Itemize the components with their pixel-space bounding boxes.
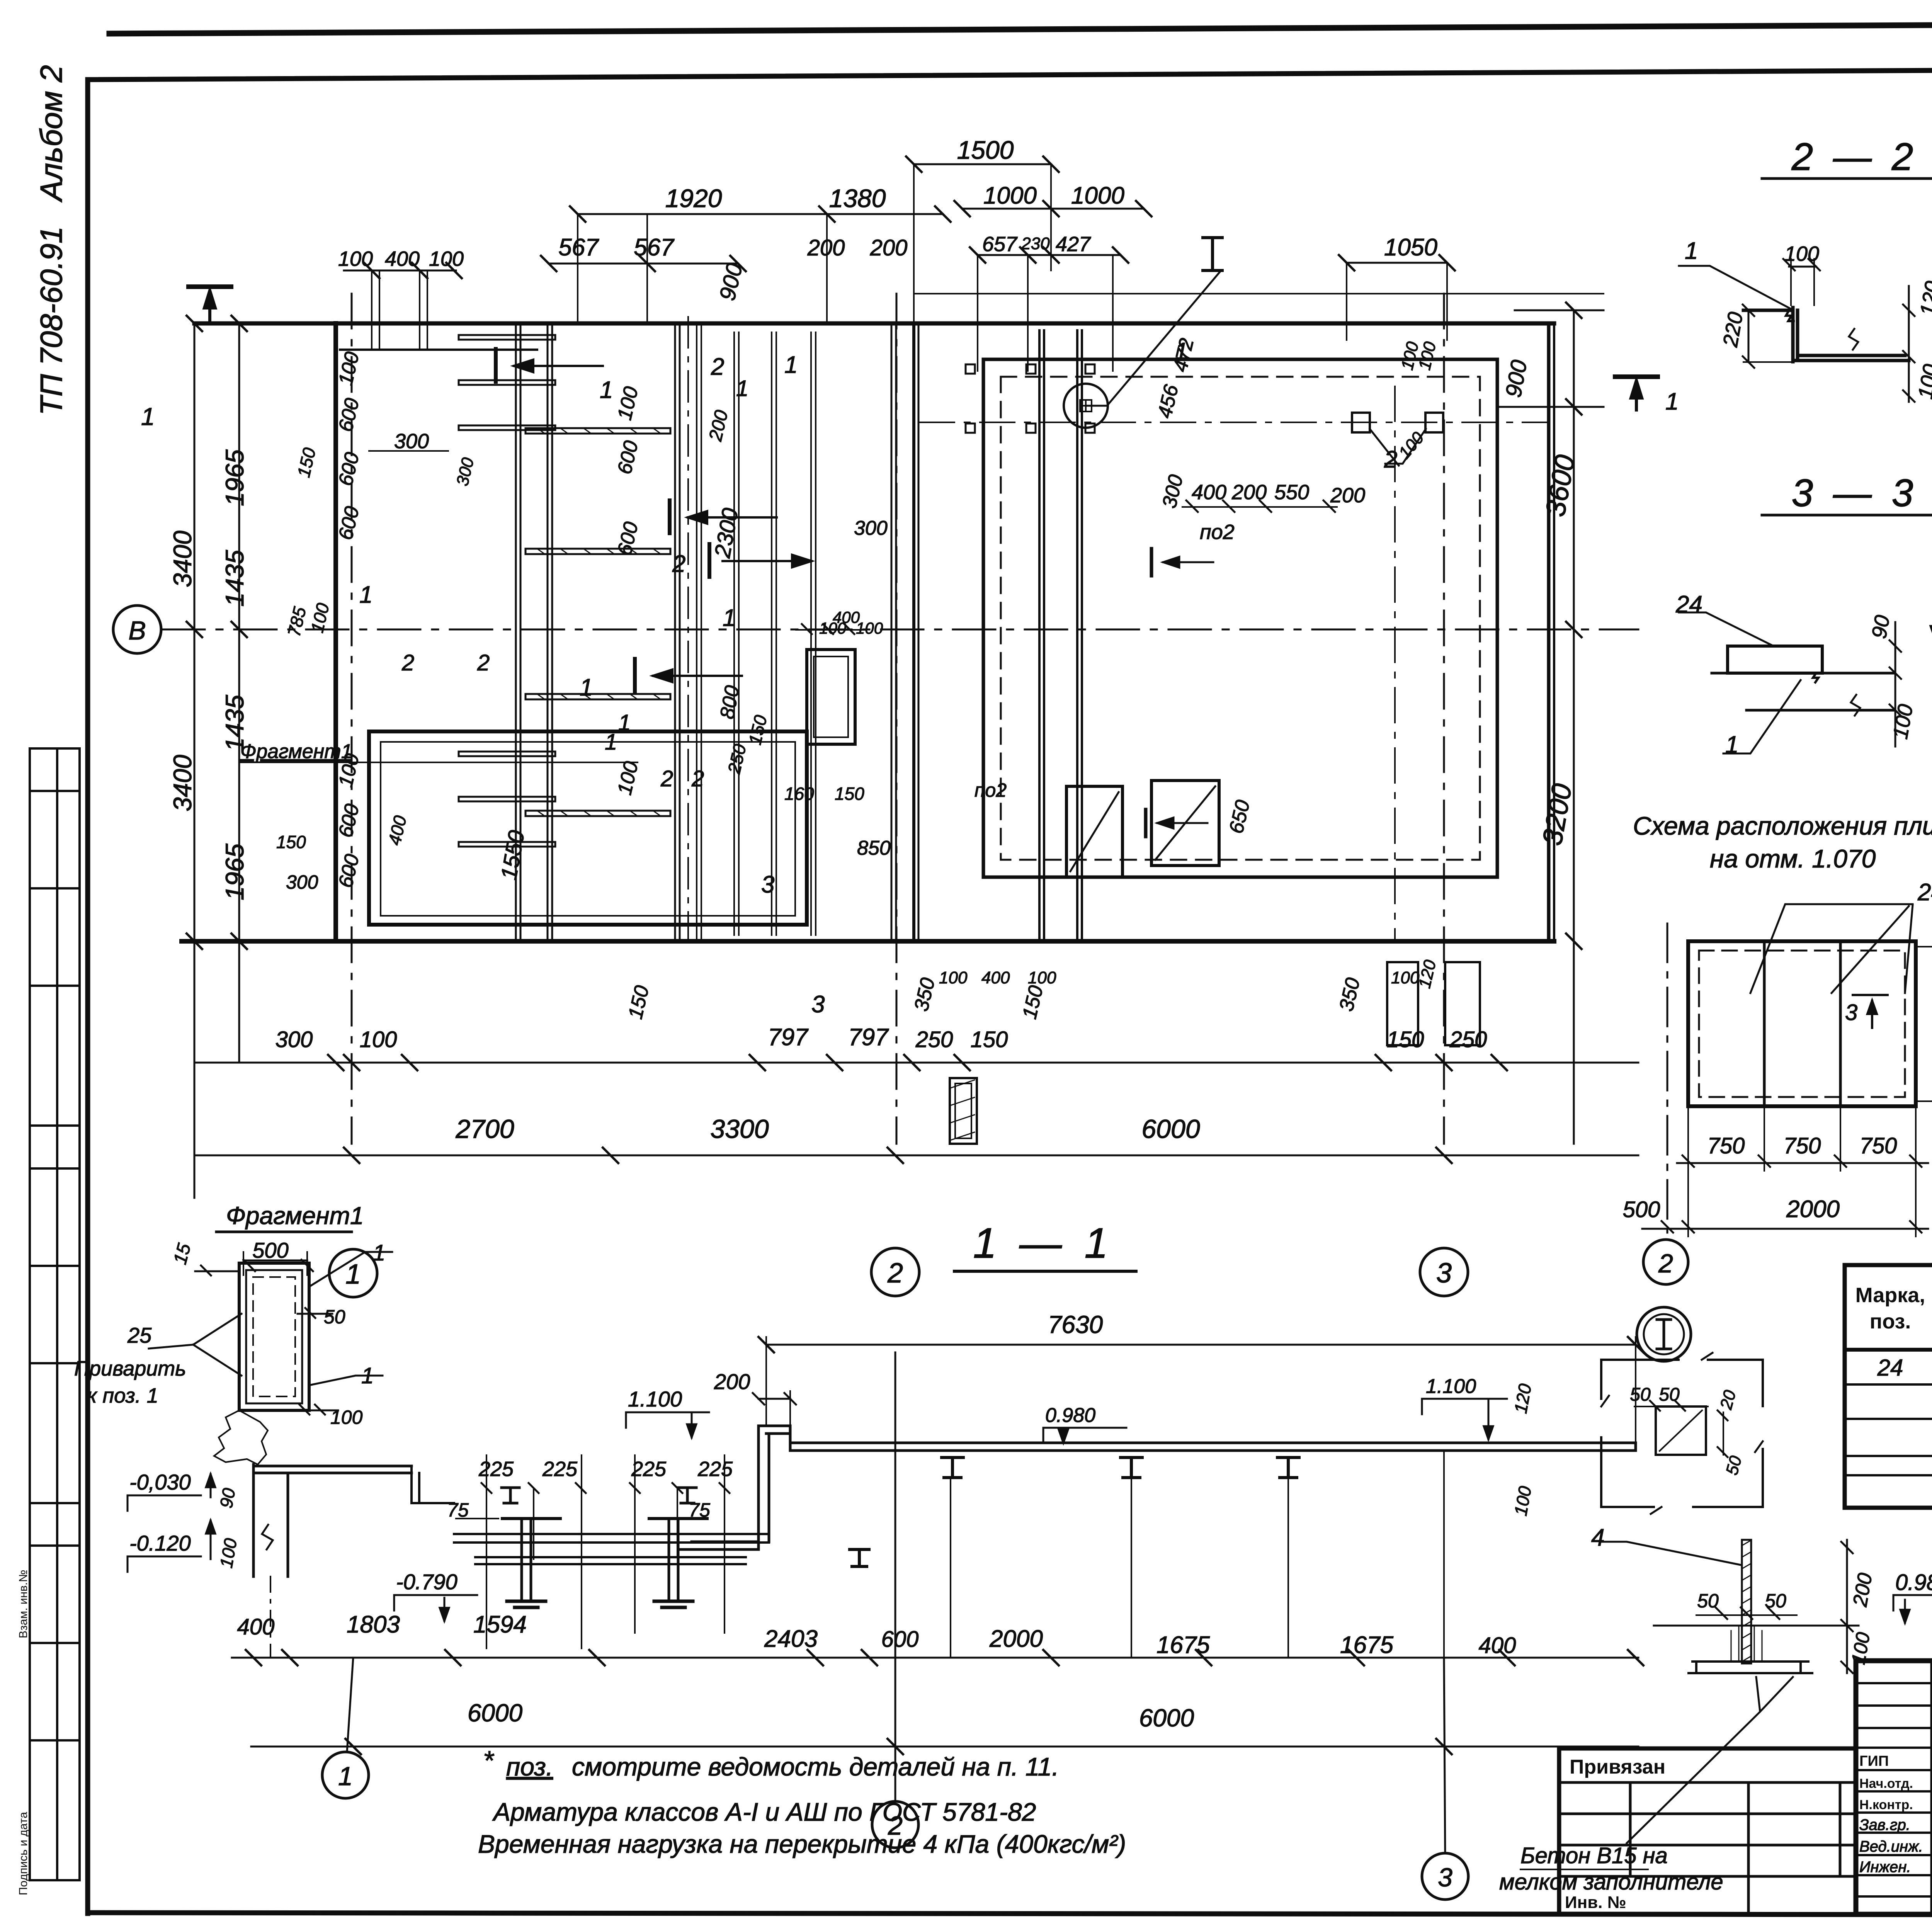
step wall right	[678, 1426, 769, 1549]
3-3 plate corner mark	[1813, 673, 1818, 682]
top extension line right part	[914, 293, 1604, 294]
title block (stamp) frame	[1559, 1661, 1932, 1914]
left dim ticks	[187, 316, 247, 949]
fragment portal inner	[246, 1270, 302, 1403]
3-3 plate	[1728, 646, 1822, 673]
3-3 dim 100	[1889, 673, 1901, 747]
svg-text:797: 797	[768, 1024, 809, 1051]
svg-text:Схема расположения плит: Схема расположения плит	[1633, 811, 1932, 840]
1-1 title underline	[954, 1270, 1136, 1273]
svg-text:0.980: 0.980	[1895, 1570, 1932, 1595]
svg-text:100: 100	[856, 619, 883, 637]
svg-text:Взам. инв.№: Взам. инв.№	[17, 1570, 30, 1638]
column top plates	[502, 1517, 707, 1520]
svg-text:150: 150	[971, 1027, 1008, 1052]
section 1-1 circle 1	[322, 1752, 369, 1798]
svg-text:1: 1	[605, 730, 617, 755]
svg-text:-0.120: -0.120	[129, 1531, 191, 1555]
section 1-1 circle 3	[1422, 1853, 1468, 1900]
plate scheme outer rect	[1688, 941, 1916, 1106]
svg-text:500: 500	[252, 1238, 288, 1262]
svg-text:90: 90	[1867, 613, 1895, 640]
right 900 dim	[1515, 310, 1604, 311]
svg-text:50: 50	[1659, 1384, 1680, 1405]
svg-text:3 — 3: 3 — 3	[1792, 471, 1918, 515]
fragment 100 dim	[296, 1405, 338, 1415]
fragment dim 500	[241, 1267, 309, 1268]
svg-text:50: 50	[1765, 1590, 1786, 1612]
svg-text:150: 150	[835, 784, 864, 804]
detail dim 20/50 right	[1723, 1412, 1724, 1455]
top dim 1050	[1347, 262, 1447, 264]
bolt base hatch	[1731, 1627, 1762, 1662]
svg-text:6000: 6000	[1141, 1114, 1200, 1144]
bolt level line	[1654, 1625, 1859, 1627]
upper-left embed bars	[459, 335, 555, 847]
svg-text:2: 2	[887, 1258, 903, 1289]
top dim 657/230/427	[978, 254, 1121, 256]
svg-text:50: 50	[324, 1306, 345, 1328]
right room inner wall	[983, 359, 1497, 877]
svg-text:200: 200	[714, 1369, 750, 1394]
svg-text:поз.: поз.	[506, 1752, 553, 1781]
section 1-1 and fragment labels	[74, 1202, 1535, 1892]
fragment leader 25	[149, 1314, 241, 1376]
plan view dimension labels	[128, 136, 1581, 1290]
axis 3 line	[1443, 294, 1445, 1144]
corridor centerline dashdot	[687, 317, 689, 941]
svg-text:6000: 6000	[1139, 1704, 1194, 1732]
detail square with break borders	[1601, 1360, 1763, 1507]
I symbol mid-span	[850, 1549, 869, 1566]
dims 225 left pit	[478, 1480, 580, 1480]
scheme dim 500/2000	[1642, 1228, 1928, 1230]
svg-text:Вед.инж.: Вед.инж.	[1859, 1838, 1923, 1855]
svg-text:Подпись и дата: Подпись и дата	[17, 1812, 30, 1895]
svg-text:2: 2	[477, 650, 490, 675]
svg-text:Н.контр.: Н.контр.	[1859, 1798, 1913, 1812]
svg-text:1.100: 1.100	[628, 1387, 682, 1411]
right wing small squares	[1352, 413, 1370, 432]
fragment dim 15	[195, 1265, 238, 1276]
right wing left wall pair	[912, 323, 915, 941]
svg-text:1000: 1000	[1071, 182, 1124, 209]
bolt elevation 0.980	[1893, 1595, 1932, 1623]
svg-text:Фрагмент1: Фрагмент1	[240, 740, 352, 763]
2-2 dim 220	[1748, 310, 1750, 362]
elevation 1.100 left	[626, 1412, 709, 1437]
svg-text:по2: по2	[1200, 520, 1235, 544]
svg-text:1675: 1675	[1340, 1632, 1393, 1658]
section 1-1 and fragment line work	[128, 1232, 1643, 1900]
svg-text:2: 2	[711, 354, 724, 380]
svg-text:Альбом 2: Альбом 2	[34, 65, 68, 202]
middle-right plate spec table frame	[1845, 1265, 1932, 1508]
2-2 dim 100 top	[1789, 266, 1816, 268]
axis circle 3	[1420, 1248, 1468, 1296]
circle inner mark	[1080, 400, 1092, 412]
svg-text:1965: 1965	[220, 449, 249, 506]
embed plate bottom middle	[950, 1078, 977, 1144]
plan top edge wall	[194, 321, 1554, 326]
svg-text:на отм. 1.070: на отм. 1.070	[1710, 844, 1876, 873]
dim 7630 line	[766, 1344, 1636, 1346]
svg-text:2: 2	[401, 650, 414, 675]
svg-text:225: 225	[631, 1458, 667, 1481]
svg-text:Инжен.: Инжен.	[1859, 1859, 1911, 1876]
small embed squares row2	[966, 423, 1095, 433]
dim line 400-200-550	[1182, 506, 1337, 508]
svg-text:3: 3	[1845, 1000, 1857, 1025]
svg-text:50: 50	[1630, 1384, 1651, 1405]
svg-text:0.980: 0.980	[1045, 1404, 1095, 1427]
elevation -0.790	[394, 1595, 477, 1621]
small embed squares row1	[966, 364, 1095, 374]
svg-text:300: 300	[394, 430, 429, 453]
svg-text:3: 3	[1438, 1863, 1452, 1892]
axis2 wall pair	[891, 323, 893, 941]
section mark T1 right	[1615, 374, 1658, 379]
svg-text:100: 100	[1028, 968, 1056, 987]
fragment portal outer	[239, 1263, 309, 1410]
svg-text:400: 400	[385, 247, 420, 270]
svg-text:750: 750	[1784, 1133, 1821, 1158]
svg-text:1: 1	[1725, 731, 1738, 758]
svg-text:1: 1	[359, 582, 372, 608]
fragment 50 mark	[298, 1308, 332, 1318]
vertical ext lines for 225 dims	[486, 1455, 724, 1648]
svg-text:*: *	[483, 1745, 495, 1776]
svg-text:657: 657	[982, 233, 1018, 256]
plan left wall	[333, 323, 338, 941]
svg-text:200: 200	[870, 235, 908, 260]
scheme bottom dim 750s	[1677, 1162, 1928, 1164]
scheme section arrows 3	[1853, 995, 1888, 1028]
top dim 1000/1000	[962, 208, 1144, 210]
dim 75 marks	[456, 1518, 699, 1519]
svg-text:75: 75	[689, 1499, 710, 1521]
svg-text:3: 3	[811, 991, 825, 1018]
svg-text:3: 3	[761, 871, 774, 898]
svg-text:1: 1	[736, 376, 748, 401]
section 2-2 title underline	[1762, 177, 1932, 180]
right room horiz axis dashdot	[920, 422, 1549, 423]
svg-text:6000: 6000	[468, 1699, 523, 1727]
section mark 1 lower	[633, 659, 637, 692]
sections labels	[1499, 135, 1932, 1895]
svg-text:2000: 2000	[989, 1626, 1043, 1652]
embed plate bottom right	[1387, 962, 1418, 1045]
left small dims 90/100	[234, 1466, 245, 1566]
axis B line	[162, 629, 1638, 631]
svg-text:Марка,: Марка,	[1855, 1284, 1925, 1307]
MH117 dims 100 400 100	[796, 629, 866, 631]
3-3 label 1 leader	[1723, 680, 1801, 753]
2-2 right dim line 120/100	[1908, 286, 1910, 402]
3-3 elevation 1.070	[1930, 556, 1932, 641]
hatched opening 2	[1151, 781, 1219, 866]
detail dims 50 50	[1634, 1406, 1708, 1407]
column 2 foot	[654, 1601, 693, 1607]
svg-text:Нач.отд.: Нач.отд.	[1859, 1776, 1913, 1791]
svg-text:230: 230	[1021, 234, 1050, 253]
corridor wall pair 1	[515, 323, 517, 941]
svg-text:797: 797	[848, 1024, 889, 1051]
svg-text:427: 427	[1056, 233, 1091, 256]
svg-text:1500: 1500	[957, 136, 1014, 164]
svg-text:300: 300	[854, 517, 888, 539]
svg-text:75: 75	[447, 1499, 469, 1521]
column 2	[669, 1519, 678, 1601]
page top scan line	[109, 21, 1932, 34]
svg-text:200: 200	[1231, 481, 1267, 504]
svg-text:1: 1	[618, 710, 631, 735]
left dim column lines	[194, 323, 196, 1198]
fragment title underline	[216, 1231, 352, 1233]
scheme double circle 1	[1637, 1307, 1691, 1361]
svg-text:1965: 1965	[220, 844, 249, 900]
svg-text:4: 4	[1591, 1524, 1604, 1551]
svg-text:550: 550	[1274, 481, 1309, 504]
dim 6000 line	[251, 1746, 1638, 1748]
section mark 2 upper	[494, 349, 498, 382]
left margin stamp strip	[30, 748, 80, 1880]
top dim line row3 (100/400/100)	[344, 270, 456, 272]
svg-text:1: 1	[1665, 388, 1679, 415]
svg-text:24: 24	[1675, 591, 1702, 618]
svg-text:Приварить: Приварить	[74, 1357, 186, 1380]
svg-text:50: 50	[1697, 1590, 1719, 1612]
wall break mark	[262, 1525, 273, 1549]
svg-text:1380: 1380	[829, 184, 886, 213]
elevation -0.030	[128, 1474, 215, 1511]
svg-text:100: 100	[330, 1406, 363, 1428]
svg-text:200: 200	[1330, 484, 1365, 507]
scheme circle 2	[1643, 1240, 1688, 1284]
svg-text:567: 567	[558, 234, 599, 261]
hatched opening 1	[1066, 786, 1122, 877]
fragment torn edge	[214, 1410, 268, 1464]
svg-text:225: 225	[478, 1458, 514, 1481]
svg-text:400: 400	[237, 1614, 275, 1639]
svg-text:мелком заполнителе: мелком заполнителе	[1499, 1869, 1723, 1895]
axis circle 2	[871, 1248, 919, 1296]
right room vert axis dashdot	[1394, 386, 1396, 941]
svg-text:225: 225	[542, 1458, 578, 1481]
2-2 step corner detail	[1786, 310, 1794, 321]
elevation 0.980 mid	[1043, 1428, 1126, 1443]
3-3 slab break	[1851, 695, 1860, 716]
svg-text:2 — 2: 2 — 2	[1791, 135, 1918, 179]
column 1 foot	[507, 1601, 546, 1607]
svg-text:смотрите ведомость детале: смотрите ведомость деталей на п. 11.	[572, 1752, 1059, 1781]
bolt dim 50 50	[1696, 1614, 1797, 1616]
3-3 slab below	[1712, 673, 1893, 710]
crosshatch circle	[1064, 384, 1108, 428]
big opening left room	[369, 731, 807, 925]
svg-text:300: 300	[276, 1027, 313, 1052]
left wall axis	[270, 1577, 271, 1658]
bolt right dim 200/100	[1846, 1540, 1848, 1673]
corridor wall pair 2	[674, 323, 676, 941]
svg-text:150: 150	[1387, 1027, 1424, 1052]
plate scheme inner dashed	[1699, 951, 1905, 1097]
svg-text:2: 2	[660, 766, 673, 791]
svg-text:300: 300	[286, 871, 318, 893]
svg-text:2000: 2000	[1786, 1196, 1840, 1223]
svg-text:850: 850	[857, 837, 891, 859]
svg-text:1000: 1000	[983, 182, 1037, 209]
right 120/100 dim	[1541, 1372, 1542, 1526]
svg-text:400: 400	[981, 968, 1010, 987]
svg-text:2403: 2403	[764, 1626, 818, 1652]
bottom main dim line	[194, 1155, 1638, 1156]
axis B circle	[113, 605, 161, 653]
left foundation wall	[253, 1464, 288, 1577]
fragment leaders 1	[309, 1252, 392, 1385]
plate dividers	[1763, 941, 1766, 1106]
svg-text:2: 2	[1658, 1249, 1673, 1278]
signature rows	[1856, 1682, 1932, 1684]
svg-text:поз.: поз.	[1870, 1310, 1911, 1333]
svg-text:2: 2	[672, 551, 685, 577]
plan right wall	[1547, 323, 1551, 941]
middle embed bars set B	[526, 428, 670, 816]
svg-text:1: 1	[784, 352, 798, 378]
section mark 2 mid2	[707, 544, 711, 577]
I-beam symbols under slab	[942, 1458, 963, 1478]
svg-text:1: 1	[141, 403, 155, 430]
svg-text:Фрагмент1: Фрагмент1	[226, 1202, 364, 1230]
plan bottom edge wall	[182, 939, 1554, 944]
svg-text:ТП 708-60.91: ТП 708-60.91	[34, 226, 68, 415]
svg-text:по2: по2	[975, 779, 1007, 801]
sunken slab	[454, 1534, 769, 1564]
embed detail MH117 rect	[807, 650, 855, 744]
svg-text:Зав.гр.: Зав.гр.	[1859, 1816, 1910, 1833]
svg-text:1435: 1435	[220, 550, 249, 607]
elevation -0.120	[128, 1520, 215, 1572]
svg-text:2: 2	[691, 766, 704, 791]
section mark po2 small	[1150, 549, 1153, 576]
scheme axis line	[1667, 923, 1668, 1233]
svg-text:100: 100	[338, 247, 373, 270]
svg-text:1: 1	[338, 1762, 353, 1791]
svg-text:1675: 1675	[1156, 1632, 1210, 1658]
axis 2 line	[896, 294, 898, 1144]
svg-text:25: 25	[127, 1323, 152, 1347]
svg-text:1.100: 1.100	[1426, 1375, 1476, 1398]
ext lines to dim	[951, 1451, 1444, 1658]
svg-text:225: 225	[697, 1458, 733, 1481]
svg-text:7630: 7630	[1048, 1311, 1103, 1338]
section I flag	[1203, 238, 1222, 270]
svg-text:1: 1	[580, 674, 593, 701]
svg-text:3300: 3300	[710, 1114, 769, 1144]
svg-text:В: В	[128, 616, 146, 645]
left slab	[253, 1466, 412, 1473]
signature columns	[1930, 1661, 1932, 1914]
svg-text:100: 100	[1784, 242, 1819, 265]
beton leader	[1627, 1677, 1793, 1843]
right dim line 3600/3200	[1573, 310, 1575, 1144]
bolt base plate	[1689, 1662, 1812, 1673]
svg-text:1803: 1803	[347, 1611, 400, 1638]
sections 2-2 3-3 and plate scheme line work	[1600, 179, 1932, 1843]
svg-text:250: 250	[1449, 1027, 1487, 1052]
upper ledge at 1.100	[759, 1426, 790, 1434]
svg-text:150: 150	[276, 832, 306, 852]
section mark po2 lower small	[1144, 810, 1148, 837]
svg-text:400: 400	[1192, 481, 1226, 504]
fragment portal dashed	[253, 1277, 295, 1396]
svg-text:400: 400	[1479, 1633, 1516, 1658]
svg-text:1: 1	[361, 1363, 374, 1388]
leader 24 to plates	[1750, 904, 1913, 993]
svg-text:ГИП: ГИП	[1859, 1753, 1889, 1769]
svg-text:1594: 1594	[473, 1611, 527, 1638]
fragment callout line	[240, 762, 638, 763]
section 3-3 title underline	[1762, 514, 1932, 517]
title block outer border	[1856, 1661, 1932, 1914]
svg-text:1: 1	[1685, 238, 1698, 264]
svg-text:250: 250	[915, 1027, 953, 1052]
bolt hatched shaft	[1742, 1540, 1751, 1663]
svg-text:3400: 3400	[168, 755, 197, 811]
axis circle 1	[329, 1249, 377, 1297]
title block texts	[1565, 1676, 1932, 1932]
elevation 1.100 right	[1422, 1399, 1507, 1439]
2-2 break mark	[1849, 329, 1858, 350]
bottom dim line row	[232, 1657, 1638, 1659]
svg-text:1: 1	[1175, 338, 1188, 365]
svg-text:100: 100	[360, 1027, 397, 1052]
svg-text:1: 1	[373, 1240, 385, 1265]
I symbols small left	[502, 1488, 519, 1503]
svg-text:750: 750	[1708, 1133, 1745, 1158]
svg-text:Инв. №: Инв. №	[1565, 1893, 1626, 1912]
scheme top leaders 24	[1739, 905, 1913, 978]
svg-text:750: 750	[1860, 1133, 1897, 1158]
axis 1 line	[351, 294, 353, 1144]
section 2-2 profile	[1743, 308, 1909, 362]
top dim line row1 (1920/1380)	[578, 213, 943, 215]
column 1	[522, 1519, 531, 1601]
svg-text:-0,030: -0,030	[129, 1470, 191, 1494]
jamb lines	[733, 332, 735, 935]
svg-text:1: 1	[723, 605, 736, 631]
svg-text:24: 24	[1917, 879, 1932, 906]
svg-text:200: 200	[807, 235, 845, 260]
svg-text:Временная нагрузка на перек: Временная нагрузка на перекрытие 4 кПа (…	[478, 1830, 1126, 1858]
bottom small dim line	[194, 1062, 1638, 1064]
svg-text:160: 160	[784, 784, 814, 804]
svg-text:Привязан: Привязан	[1570, 1756, 1665, 1778]
svg-text:2700: 2700	[455, 1114, 514, 1144]
svg-text:600: 600	[881, 1627, 919, 1652]
top dim line row2 (567/567)	[549, 263, 738, 265]
svg-text:90: 90	[216, 1486, 239, 1510]
top dim 1500	[914, 163, 1051, 165]
dim 200	[759, 1398, 790, 1400]
svg-text:24: 24	[1877, 1355, 1903, 1381]
rail beam lines	[1038, 330, 1041, 941]
svg-text:к поз. 1: к поз. 1	[87, 1384, 158, 1407]
plan view line work	[113, 156, 1658, 1297]
svg-text:100: 100	[429, 247, 464, 270]
section mark 3 middle	[668, 500, 672, 533]
svg-text:500: 500	[1623, 1197, 1660, 1222]
